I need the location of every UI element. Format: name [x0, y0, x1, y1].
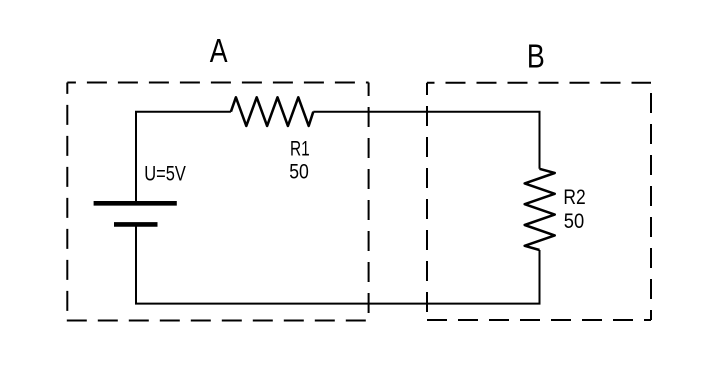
svg-text:50: 50: [564, 210, 584, 233]
svg-text:A: A: [210, 32, 228, 69]
svg-text:B: B: [527, 37, 545, 74]
svg-text:R1: R1: [290, 137, 310, 160]
svg-text:R2: R2: [563, 186, 585, 209]
svg-text:50: 50: [289, 160, 309, 183]
svg-text:U=5V: U=5V: [144, 163, 186, 186]
